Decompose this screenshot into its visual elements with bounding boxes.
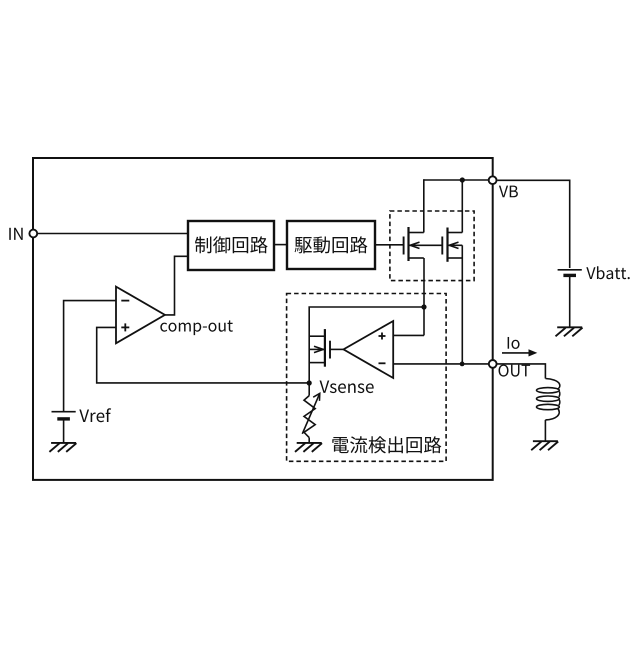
terminal VB bbox=[489, 176, 497, 184]
IC outline box bbox=[33, 158, 493, 480]
control block 制御回路 bbox=[188, 221, 274, 270]
label Io bbox=[508, 337, 520, 349]
wire comp-out output to control box bbox=[165, 256, 188, 315]
inductor L1 bbox=[537, 379, 560, 420]
plus mark bbox=[379, 335, 386, 337]
wire battery to ground bbox=[569, 277, 571, 327]
wire drive to gates bbox=[375, 244, 404, 246]
label IN bbox=[9, 228, 22, 240]
ground bbox=[49, 443, 76, 452]
transistor Q1 (left output FET) bbox=[404, 227, 443, 261]
ground bbox=[556, 327, 583, 336]
wire Q2 drain up to VB rail bbox=[461, 180, 463, 233]
junction dot sense node bbox=[421, 304, 426, 309]
wire VB to battery bbox=[497, 180, 570, 268]
wire IN to control box bbox=[38, 233, 188, 235]
terminal IN bbox=[29, 230, 37, 238]
wire comp-out minus input to Vref bbox=[64, 301, 116, 411]
wire minus input to OUT line bbox=[393, 363, 488, 365]
op-amp U2 (sense amp) bbox=[344, 321, 394, 378]
label OUT bbox=[499, 364, 531, 376]
wire Vref to ground bbox=[63, 419, 65, 443]
wire Q2 source down to OUT bbox=[461, 258, 463, 364]
drive block 駆動回路 bbox=[287, 221, 375, 269]
battery Vbatt bbox=[558, 270, 582, 276]
resistor Rsense (variable, zigzag) bbox=[308, 383, 310, 396]
label VB bbox=[499, 186, 518, 198]
dashed box output FET pair bbox=[390, 211, 474, 281]
label Vref bbox=[79, 408, 111, 422]
junction dot OUT bbox=[460, 362, 465, 367]
minus mark bbox=[121, 300, 129, 302]
ground bbox=[531, 441, 558, 450]
arrow across resistor bbox=[302, 395, 319, 434]
ground bbox=[295, 443, 322, 452]
transistor Q2 (right output FET) bbox=[442, 228, 462, 262]
wire op-amp output to Q3 gate bbox=[330, 348, 344, 350]
wire OUT to inductor bbox=[497, 364, 546, 379]
transistor Q3 (sense regulator FET) bbox=[309, 329, 343, 367]
label Vbatt. bbox=[586, 266, 629, 279]
wire Q1 source down to sense node bbox=[423, 258, 425, 307]
VB rail wire bbox=[424, 179, 488, 181]
wire sense node to op-amp plus input bbox=[423, 307, 425, 335]
junction dot Vsense bbox=[307, 380, 312, 385]
terminal OUT bbox=[489, 360, 497, 368]
wire comp-out plus input to Vsense node bbox=[97, 327, 310, 383]
battery Vref bbox=[52, 412, 76, 419]
sense node wires bbox=[309, 307, 424, 383]
plus mark bbox=[121, 326, 129, 328]
dashed box current sense 電流検出回路 bbox=[287, 294, 447, 462]
arrow Io bbox=[502, 352, 532, 354]
wire plus input bbox=[393, 334, 424, 336]
label Vsense bbox=[320, 380, 374, 393]
label comp-out bbox=[160, 320, 233, 335]
wire control to drive bbox=[274, 244, 287, 246]
op-amp comp-out bbox=[116, 287, 165, 344]
wire Q1 drain up to VB rail bbox=[423, 179, 425, 232]
wire inductor to ground bbox=[544, 420, 546, 441]
minus mark bbox=[379, 362, 386, 364]
junction dot VB rail bbox=[460, 177, 465, 182]
